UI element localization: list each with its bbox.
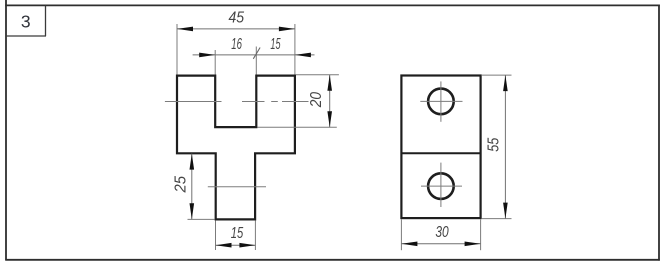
dimension 20 bottom arrow <box>327 111 332 127</box>
svg-text:20: 20 <box>307 91 325 108</box>
side view middle edge <box>401 152 480 154</box>
svg-text:3: 3 <box>21 11 31 31</box>
dimension 20 top arrow <box>327 75 332 91</box>
dimension 25 top arrow <box>190 154 195 170</box>
dimension bottom 15 line <box>216 244 256 246</box>
front view upper centerline (dash-dot) <box>165 101 309 103</box>
frame left border <box>5 0 7 260</box>
front view lower centerline <box>208 186 266 188</box>
svg-text:45: 45 <box>228 9 244 27</box>
dimension bottom 15 extension lines <box>216 220 256 250</box>
svg-text:25: 25 <box>172 176 190 194</box>
side view outline <box>401 76 480 219</box>
dimension 45 line <box>177 28 295 30</box>
dimension 55 extension lines <box>482 75 512 219</box>
dimension 30 line <box>401 243 480 245</box>
svg-text:55: 55 <box>485 137 503 152</box>
dimension 45 left arrow <box>177 27 193 32</box>
upper hole crosshair <box>420 81 462 121</box>
svg-text:16: 16 <box>231 34 242 52</box>
dimension 25 extension line <box>188 218 215 220</box>
dimension 55 line <box>504 75 506 219</box>
dimension 55 top arrow <box>503 75 508 91</box>
frame top border <box>5 4 660 6</box>
dimension 30 left arrow <box>401 242 417 247</box>
dimension 30 extension lines <box>401 219 480 250</box>
svg-text:30: 30 <box>435 222 448 240</box>
dimension 15 outside arrow <box>295 53 311 58</box>
dimension 16/15 extension lines <box>215 47 256 75</box>
dimension 45 extension lines <box>177 24 295 75</box>
cell box for number <box>6 6 46 37</box>
dimension 30 right arrow <box>465 242 481 247</box>
dimension 55 bottom arrow <box>503 203 508 219</box>
dimension 45 right arrow <box>279 27 295 32</box>
dimension bottom 15 left arrow <box>216 243 232 248</box>
dimension junction slash <box>253 48 260 59</box>
svg-text:15: 15 <box>270 34 281 52</box>
dimension 16/15 line <box>193 54 315 56</box>
frame right border <box>658 5 660 261</box>
lower hole circle <box>428 173 454 199</box>
dimension 25 bottom arrow <box>190 203 195 219</box>
svg-text:15: 15 <box>231 223 244 242</box>
dimension 25 line <box>191 154 193 220</box>
dimension 16 outside arrow <box>199 53 215 58</box>
lower hole crosshair <box>421 163 462 207</box>
dimension 20 line <box>329 75 331 127</box>
front view outline <box>177 76 295 220</box>
dimension bottom 15 right arrow <box>239 243 255 248</box>
upper hole circle <box>428 89 454 115</box>
dimension 20 extension lines <box>257 75 339 127</box>
frame bottom border <box>5 259 660 261</box>
